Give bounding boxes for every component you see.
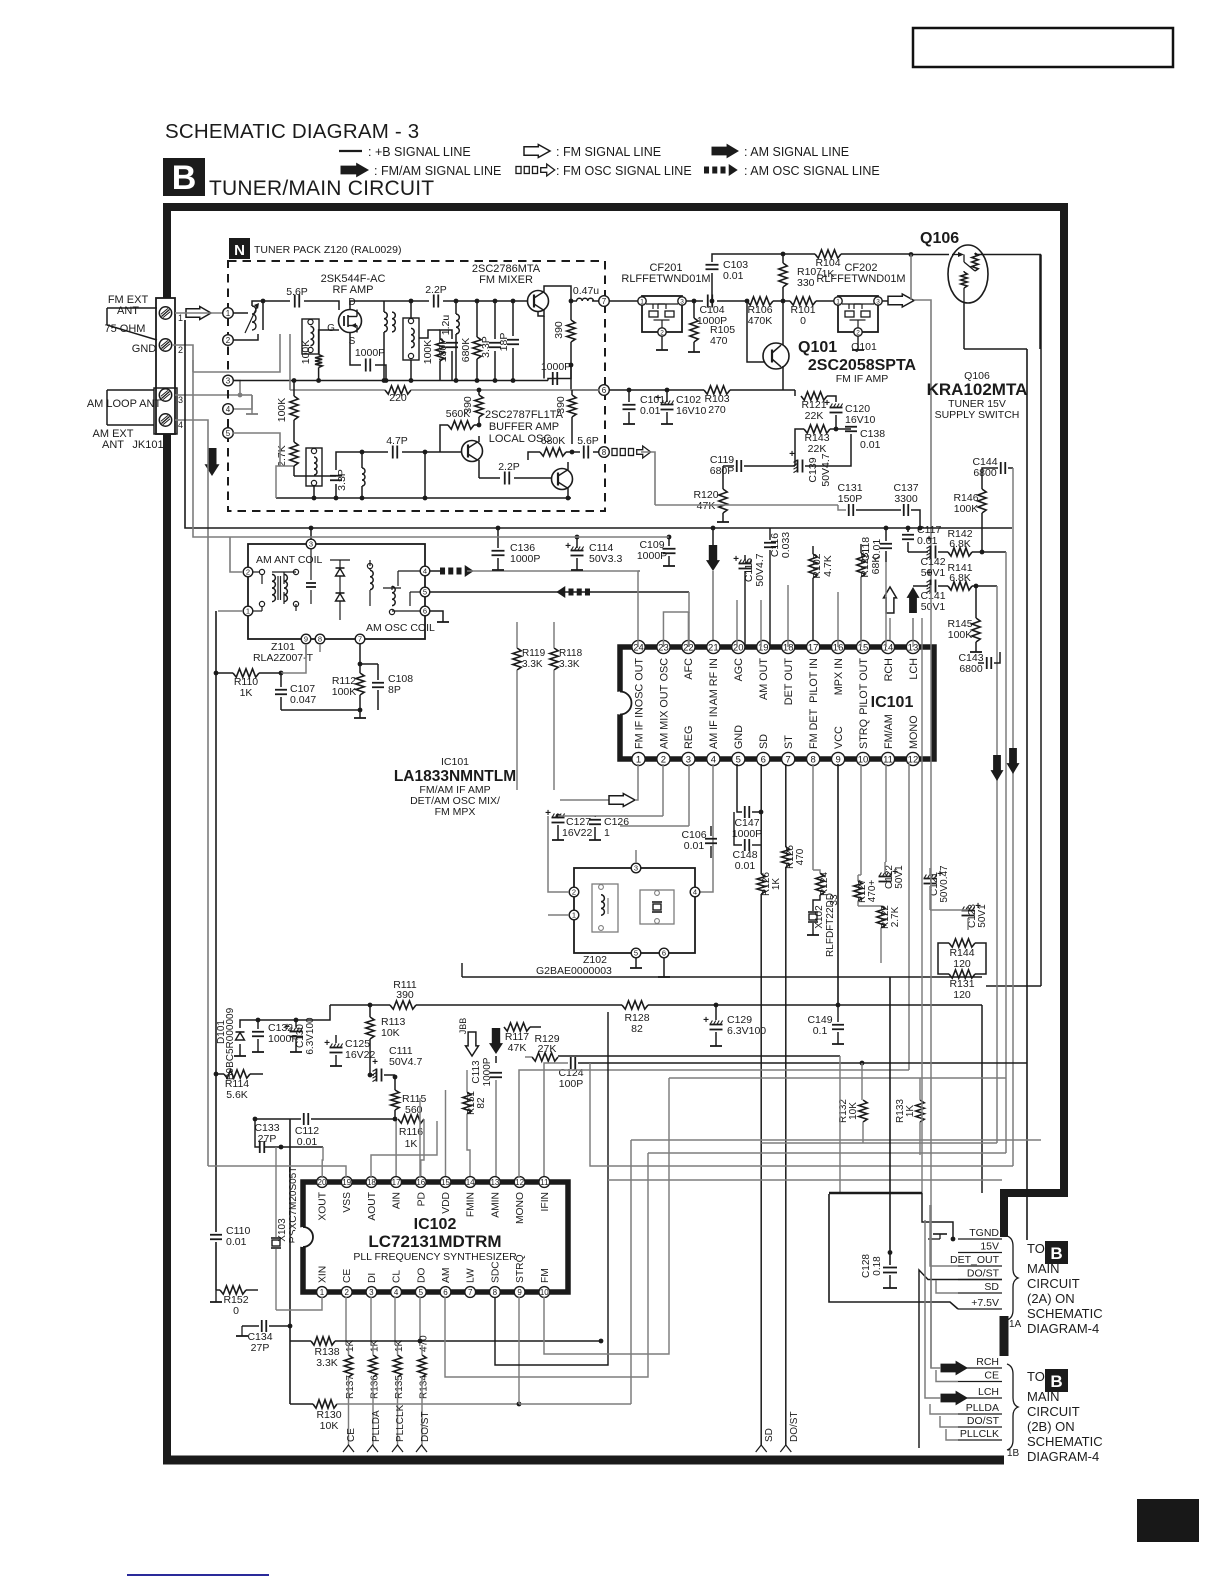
resistor R113 10K bbox=[366, 1016, 406, 1039]
wire R152 right bbox=[246, 1289, 258, 1291]
svg-text:390: 390 bbox=[396, 989, 414, 1001]
label PLLDA bbox=[966, 1402, 999, 1414]
svg-text:4: 4 bbox=[178, 420, 183, 430]
ground ant stub bbox=[246, 395, 258, 414]
svg-text:RCH: RCH bbox=[976, 1356, 999, 1368]
pin IC101-23 OSC bbox=[657, 640, 670, 681]
wire C115 down bbox=[744, 571, 746, 647]
wire R136 up bbox=[372, 1345, 374, 1355]
svg-text:1000P: 1000P bbox=[355, 347, 385, 359]
label PLLCLK bbox=[960, 1428, 999, 1440]
capacitor C134 27P bbox=[247, 1320, 272, 1354]
svg-text:GND: GND bbox=[132, 343, 157, 355]
wire 100K down bbox=[318, 368, 320, 379]
wire gnd stub bbox=[172, 345, 193, 372]
svg-text:FM IF IN: FM IF IN bbox=[633, 707, 645, 749]
wire C109 down bbox=[668, 556, 670, 566]
wire pin16 column bbox=[837, 592, 839, 647]
wire long vertical x1027 bbox=[1026, 349, 1028, 1240]
resistor 220 bbox=[385, 386, 411, 404]
wire C108 up bbox=[377, 664, 379, 680]
junction bbox=[566, 496, 571, 501]
wire node down to FM arrow line bbox=[910, 255, 912, 301]
resistor 680K osc bbox=[540, 435, 566, 456]
pin IC101-9 VCC bbox=[832, 726, 845, 766]
resistor R134 470 bbox=[418, 1335, 430, 1399]
junction bbox=[575, 535, 580, 540]
wire to mixer base bbox=[443, 300, 527, 302]
Z102 interior coil bbox=[592, 884, 618, 932]
wire DET_OUT feed bbox=[930, 1205, 958, 1266]
svg-text:+: + bbox=[655, 393, 661, 404]
legend AM OSC signal line symbol bbox=[704, 164, 880, 178]
wire XOUT riser bbox=[321, 1147, 324, 1178]
junction bbox=[358, 662, 363, 667]
wire R118 up bbox=[553, 622, 555, 648]
wire AM staircase bbox=[445, 1153, 648, 1377]
svg-text:FM MPX: FM MPX bbox=[435, 806, 476, 818]
wire C133 to XOUT bbox=[265, 1146, 323, 1148]
capacitor C138 0.01 bbox=[845, 427, 885, 451]
wire R130 left bbox=[290, 1403, 313, 1405]
ground C127 bbox=[552, 839, 564, 841]
capacitor C116 0.033 bbox=[764, 532, 792, 558]
wire CF202 out bbox=[882, 300, 888, 302]
svg-text:18: 18 bbox=[367, 1178, 376, 1187]
revision box bbox=[913, 28, 1173, 67]
svg-text:100K: 100K bbox=[422, 340, 434, 365]
wire bus A bbox=[462, 976, 982, 978]
svg-text:5.6P: 5.6P bbox=[577, 435, 599, 447]
capacitor C137 3300 bbox=[893, 482, 918, 516]
svg-text:50V1: 50V1 bbox=[894, 865, 905, 889]
capacitor C110 0.01 bbox=[210, 1225, 250, 1248]
svg-text:2: 2 bbox=[856, 329, 860, 336]
svg-text:10K: 10K bbox=[848, 1102, 859, 1120]
arrow AM OSC to pin4 bbox=[440, 565, 474, 577]
capacitor 4.7P bbox=[386, 435, 408, 459]
svg-text:5.6P: 5.6P bbox=[286, 286, 308, 298]
svg-text:4: 4 bbox=[226, 405, 231, 414]
svg-text:AM LOOP ANT: AM LOOP ANT bbox=[87, 398, 162, 410]
wire DI down bbox=[370, 1297, 372, 1345]
wire R103 right bbox=[730, 389, 795, 391]
wire MONO line bbox=[519, 1070, 909, 1178]
noop3 bbox=[937, 957, 939, 959]
wire pin11 down bbox=[885, 764, 887, 862]
capacitor 18P bbox=[498, 333, 519, 352]
ground TGND bbox=[928, 1234, 947, 1239]
wire PD up bbox=[419, 1098, 421, 1178]
wire lower node bbox=[294, 475, 336, 477]
svg-text:G2BAE0000003: G2BAE0000003 bbox=[536, 965, 612, 977]
resistor R145 100K bbox=[947, 618, 980, 642]
svg-text:22K: 22K bbox=[805, 410, 824, 422]
svg-text:47K: 47K bbox=[697, 500, 716, 512]
label GND bbox=[132, 343, 157, 355]
resistor R112 100K bbox=[332, 673, 364, 698]
junction bbox=[888, 1250, 893, 1255]
wire Q106 emitter down bbox=[963, 303, 965, 349]
stub busA bbox=[461, 963, 463, 977]
resistor 100K pack3 bbox=[276, 396, 298, 422]
svg-text:R119: R119 bbox=[522, 648, 546, 659]
wire C143 left bbox=[978, 662, 984, 664]
svg-text:10K: 10K bbox=[381, 1027, 400, 1039]
wire AM loop top bbox=[107, 389, 154, 391]
wire osc coil down bbox=[361, 486, 363, 498]
wire coil2 down bbox=[410, 360, 412, 381]
resistor R111 390 bbox=[390, 979, 417, 1009]
pin IC101-15 PILOT OUT bbox=[856, 640, 869, 714]
wire C109 up bbox=[668, 537, 670, 546]
junction bbox=[292, 378, 297, 383]
wire pin10 down bbox=[860, 764, 862, 875]
legend FM signal line symbol bbox=[524, 145, 661, 160]
junction bbox=[511, 299, 516, 304]
IC IC101 outline bbox=[609, 647, 935, 759]
wire R132 up bbox=[861, 1063, 863, 1100]
resistor R151 82 bbox=[463, 1091, 487, 1115]
capacitor C111 50V4.7 bbox=[372, 1045, 422, 1082]
capacitor 5.6P osc bbox=[577, 435, 599, 459]
wire drop x840 bbox=[839, 1056, 841, 1193]
pin IC102-15 VDD bbox=[440, 1177, 452, 1214]
wire 1000P right bbox=[562, 365, 571, 379]
ground C128 bbox=[883, 1287, 897, 1289]
svg-text:470K: 470K bbox=[748, 315, 773, 327]
wire to C131 bbox=[838, 505, 846, 510]
pin IC102-16 PD bbox=[415, 1177, 427, 1207]
label +7.5V bbox=[971, 1297, 999, 1309]
svg-text:27K: 27K bbox=[538, 1043, 557, 1055]
arrow AM antenna down bbox=[205, 448, 220, 476]
wire R114 left bbox=[216, 1073, 224, 1075]
capacitor C127 16V22 bbox=[545, 808, 592, 839]
wire R144-R131 left bbox=[938, 943, 949, 974]
connector chevron SD bbox=[756, 1428, 775, 1452]
wire C121-C123 bbox=[930, 909, 968, 911]
junction bbox=[477, 423, 482, 428]
wire C123 down bbox=[967, 918, 969, 930]
wire Z102 pin1 left bbox=[548, 914, 569, 916]
svg-text:+: + bbox=[372, 1057, 378, 1068]
resistor R138 3.3K bbox=[311, 1337, 340, 1369]
svg-text:AM: AM bbox=[441, 1268, 452, 1283]
svg-text:: AM SIGNAL LINE: : AM SIGNAL LINE bbox=[744, 145, 849, 159]
capacitor C113 1000P bbox=[471, 1057, 502, 1086]
junction bbox=[393, 1117, 398, 1122]
svg-text:470: 470 bbox=[419, 1335, 430, 1352]
wire R120 down bbox=[722, 513, 724, 522]
wire FM ext to pin1 bbox=[175, 312, 223, 314]
junction bbox=[627, 388, 632, 393]
ground C130 bbox=[290, 1051, 302, 1053]
svg-text:N: N bbox=[234, 242, 245, 259]
svg-text:AGC: AGC bbox=[733, 658, 745, 682]
svg-text:50V3.3: 50V3.3 bbox=[589, 553, 622, 565]
label Q101 small bbox=[851, 341, 877, 353]
wire C121 up bbox=[929, 868, 931, 876]
resistor R101 0 bbox=[790, 297, 816, 327]
transformer AM osc bbox=[367, 560, 420, 615]
wire C141 left lead bbox=[913, 585, 928, 587]
wire R133 down bbox=[919, 1122, 921, 1155]
wire pin5 gnd bbox=[736, 764, 738, 790]
wire coil to 2.2P bbox=[420, 300, 429, 302]
wire C112 line right bbox=[311, 1118, 395, 1120]
wire 3.3P down bbox=[335, 484, 337, 498]
junction bbox=[409, 299, 414, 304]
junction bbox=[368, 1003, 373, 1008]
svg-text:0.01: 0.01 bbox=[860, 439, 881, 451]
svg-text:2: 2 bbox=[246, 568, 250, 577]
junction bbox=[279, 1145, 284, 1150]
svg-text:DO/ST: DO/ST bbox=[967, 1415, 1000, 1427]
resistor R107 330 bbox=[779, 263, 822, 289]
pin IC102-3 DI bbox=[366, 1273, 378, 1298]
svg-text:4: 4 bbox=[693, 888, 697, 897]
wire C139 to C138 bbox=[805, 444, 851, 466]
label Q106 KRA102MTA block bbox=[927, 370, 1028, 421]
svg-text:2: 2 bbox=[660, 329, 664, 336]
pin 2 bbox=[223, 335, 234, 346]
wire R110 right bbox=[259, 672, 281, 674]
ground C125 bbox=[330, 1065, 342, 1067]
svg-text:470+: 470+ bbox=[867, 880, 878, 903]
svg-text:10: 10 bbox=[540, 1288, 549, 1297]
label 75 OHM bbox=[105, 323, 146, 335]
junction bbox=[836, 1003, 841, 1008]
svg-text:XOUT: XOUT bbox=[318, 1191, 329, 1220]
svg-text:4.7K: 4.7K bbox=[822, 555, 834, 577]
wire x931 to RCH bbox=[930, 1155, 932, 1368]
junction bbox=[360, 496, 365, 501]
svg-text:680K: 680K bbox=[541, 435, 566, 447]
wire C124 bus mid bbox=[578, 1062, 862, 1064]
transistor FM MIXER bbox=[528, 291, 549, 312]
wire trimmer up bbox=[252, 301, 263, 306]
pin IC101-11 FM/AM bbox=[881, 714, 894, 765]
pin IC102-20 XOUT bbox=[317, 1177, 329, 1221]
wire C107 up bbox=[280, 673, 282, 687]
wire arrow to C113 bbox=[495, 1056, 497, 1063]
wire pin7 ST upper bbox=[785, 764, 787, 847]
svg-text:50V1: 50V1 bbox=[921, 567, 946, 579]
wire DO down bbox=[419, 1297, 421, 1341]
svg-text:1K: 1K bbox=[822, 268, 835, 280]
legend +B signal line symbol bbox=[339, 145, 471, 159]
svg-text:: FM SIGNAL LINE: : FM SIGNAL LINE bbox=[556, 145, 661, 159]
svg-text:8: 8 bbox=[493, 1288, 498, 1297]
wire R151 up bbox=[466, 1070, 468, 1092]
svg-text:(2A) ON: (2A) ON bbox=[1027, 1291, 1075, 1306]
wire Q101 base up bbox=[747, 301, 759, 362]
resistor 100K pack2 bbox=[422, 339, 444, 364]
capacitor C104 1000P bbox=[697, 295, 727, 328]
svg-text:270: 270 bbox=[708, 404, 726, 416]
wire coil down bbox=[383, 332, 385, 379]
wire pin4 out bbox=[430, 570, 440, 572]
wire Q101 base stub bbox=[759, 361, 765, 363]
junction bbox=[360, 450, 365, 455]
wire to C104 bbox=[694, 300, 703, 302]
svg-text:2.7K: 2.7K bbox=[276, 445, 288, 467]
svg-text:+: + bbox=[565, 541, 571, 552]
svg-text:22K: 22K bbox=[808, 443, 827, 455]
wire C139 left bbox=[744, 465, 795, 467]
svg-text:10: 10 bbox=[858, 754, 869, 765]
capacitor C149 0.1 bbox=[807, 1014, 844, 1037]
transistor FET RF AMP bbox=[339, 310, 362, 333]
svg-text:LCH: LCH bbox=[978, 1386, 999, 1398]
wire AM loop bottom bbox=[107, 424, 154, 426]
svg-text:390: 390 bbox=[553, 321, 565, 339]
ground CF202 bbox=[852, 336, 864, 350]
inductor 1.2u bbox=[440, 314, 459, 335]
wire C142 to R142 bbox=[938, 551, 948, 553]
svg-text:1000P: 1000P bbox=[541, 361, 571, 373]
svg-text:2.2P: 2.2P bbox=[425, 284, 447, 296]
tuner pack box bbox=[228, 261, 605, 511]
wire pin19 column bbox=[760, 600, 762, 647]
wire R113 up bbox=[369, 1005, 371, 1017]
wire X103 down bbox=[275, 1249, 277, 1310]
ground Z102-5 bbox=[630, 967, 642, 969]
label SD bbox=[984, 1281, 999, 1293]
wire osc tr collector bbox=[567, 462, 569, 470]
wire Z101 pin3 up bbox=[310, 528, 312, 539]
connector chevron DO/ST 2 bbox=[780, 1411, 800, 1452]
svg-text:50V1: 50V1 bbox=[977, 904, 988, 928]
svg-text:6.8K: 6.8K bbox=[949, 538, 971, 550]
svg-text:STRQ: STRQ bbox=[515, 1254, 526, 1283]
svg-text:CE: CE bbox=[346, 1428, 357, 1442]
wire pin7 ST long vertical bbox=[785, 867, 787, 1448]
svg-text:R118: R118 bbox=[559, 648, 583, 659]
pin Z101-3 bbox=[306, 539, 316, 549]
section label B bbox=[163, 158, 205, 197]
svg-text:MPX IN: MPX IN bbox=[833, 658, 845, 695]
wire 560K left bbox=[440, 425, 448, 452]
frame tab 1B bbox=[1007, 1448, 1020, 1459]
svg-text:R135: R135 bbox=[394, 1375, 405, 1399]
capacitor C130 6.3V100 bbox=[284, 1017, 316, 1055]
resistor R132 10K bbox=[838, 1099, 867, 1123]
wire mixer emitter bbox=[538, 310, 544, 316]
svg-text:FM/AM: FM/AM bbox=[883, 714, 895, 749]
resistor R144 120 bbox=[949, 939, 975, 970]
wire 680K left bbox=[528, 452, 540, 460]
wire R102 up bbox=[812, 546, 814, 554]
wire to pin8 bbox=[593, 451, 599, 453]
resistor R125 470 bbox=[782, 845, 806, 869]
wire Z101 pin1 left bbox=[218, 610, 243, 612]
junction bbox=[759, 810, 764, 815]
svg-text:9: 9 bbox=[304, 635, 308, 644]
junction bbox=[423, 496, 428, 501]
label IC101 bbox=[871, 694, 914, 711]
wire R110 left bbox=[216, 672, 233, 674]
wire R152 left bbox=[216, 1289, 220, 1291]
wire R136 down bbox=[372, 1377, 374, 1446]
wire LCH feed bbox=[925, 1220, 941, 1398]
pin IC101-14 RCH bbox=[881, 640, 894, 681]
svg-text:100K: 100K bbox=[300, 340, 312, 365]
pin IC101-20 AGC bbox=[732, 640, 745, 681]
frame border bbox=[163, 203, 1064, 1460]
pin IC101-5 GND bbox=[732, 725, 745, 766]
svg-text:SCHEMATIC: SCHEMATIC bbox=[1027, 1434, 1103, 1449]
svg-text:MAIN: MAIN bbox=[1027, 1389, 1060, 1404]
svg-text:1: 1 bbox=[572, 911, 576, 920]
connector JK101 body bbox=[154, 298, 177, 434]
resistor R146 100K bbox=[953, 489, 986, 515]
capacitor C103 0.01 bbox=[706, 259, 749, 282]
junction bbox=[477, 388, 482, 393]
resistor R129 27K bbox=[532, 1033, 560, 1061]
wire 390b down bbox=[478, 417, 480, 425]
legend AM signal line symbol bbox=[712, 145, 849, 160]
resistor R121 22K bbox=[801, 392, 827, 422]
wire R127 up bbox=[857, 875, 859, 881]
wire osc tr emitter bbox=[567, 488, 569, 498]
svg-text:1A: 1A bbox=[1009, 1319, 1022, 1330]
ground C102 bbox=[661, 423, 673, 425]
wire pin22 column bbox=[688, 612, 690, 647]
svg-text:47K: 47K bbox=[508, 1042, 527, 1054]
wire C114 up bbox=[576, 537, 578, 548]
svg-text:1: 1 bbox=[320, 1288, 325, 1297]
svg-text:1: 1 bbox=[246, 607, 250, 616]
svg-text:6.8K: 6.8K bbox=[949, 572, 971, 584]
svg-text:390: 390 bbox=[555, 396, 567, 414]
svg-text:8: 8 bbox=[811, 754, 816, 765]
svg-text:PLLDA: PLLDA bbox=[966, 1402, 999, 1414]
wire C102 down bbox=[666, 412, 668, 424]
label AM LOOP ANT bbox=[87, 398, 162, 410]
junction bbox=[714, 1003, 719, 1008]
wire stair h 1153 bbox=[648, 1152, 1006, 1154]
wire stub bbox=[184, 320, 186, 345]
wire pin24 column bbox=[637, 571, 639, 647]
svg-text:4: 4 bbox=[711, 754, 716, 765]
wire DO/ST 2B feed bbox=[940, 1416, 958, 1427]
svg-text:R137: R137 bbox=[345, 1375, 356, 1399]
wire to R104 bbox=[783, 253, 815, 255]
pin IC101-10 STRQ bbox=[856, 719, 869, 766]
svg-text:B: B bbox=[172, 159, 197, 197]
label IC102 block bbox=[353, 1216, 517, 1263]
wire arrow to pin13 bbox=[912, 618, 914, 640]
svg-text:1K: 1K bbox=[771, 878, 782, 891]
junction bbox=[951, 1237, 956, 1242]
svg-text:SD: SD bbox=[764, 1428, 775, 1442]
wire FET D top bbox=[350, 301, 420, 310]
svg-text:AM OSC COIL: AM OSC COIL bbox=[366, 622, 435, 634]
ground C149 bbox=[832, 1043, 844, 1045]
svg-text:17: 17 bbox=[392, 1178, 401, 1187]
wire C111 right bbox=[384, 1074, 395, 1076]
svg-text:2: 2 bbox=[661, 754, 666, 765]
wire AOUT bbox=[371, 1121, 437, 1178]
resistor R116 1K bbox=[398, 1115, 424, 1150]
wire R133 up bbox=[919, 1078, 921, 1100]
wire X102 down bbox=[812, 923, 814, 935]
svg-text:: FM/AM SIGNAL LINE: : FM/AM SIGNAL LINE bbox=[374, 164, 501, 178]
wire rail to arrow node bbox=[498, 527, 713, 529]
svg-text:FM: FM bbox=[540, 1268, 551, 1283]
